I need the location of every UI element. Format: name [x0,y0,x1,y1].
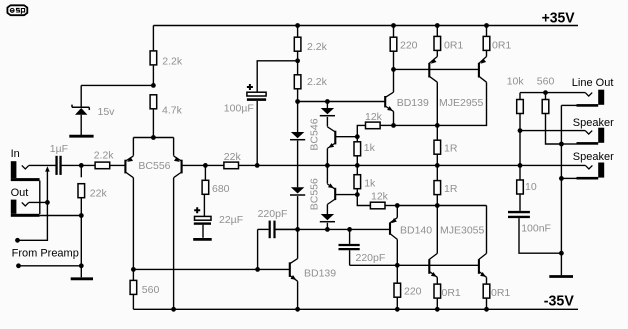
node rail tap 220 lower [395,307,400,312]
wire zener feed [81,85,153,107]
wire Q2 collector drop [173,178,175,310]
wire 2.2k to bias line [297,89,299,102]
resistor R 12k upper [357,111,393,137]
jack Out [11,200,40,217]
resistor R 10 zobel [517,165,537,211]
wire 2.2k/4.7k bias chain column [152,26,154,138]
svg-text:12k: 12k [371,191,389,203]
node comp line / D string [325,227,330,232]
wire D4 lower lead [326,223,328,230]
capacitor C 22uF [194,207,243,226]
node 10k bottom node [518,128,523,133]
zener D5 15v [69,105,115,137]
transistor Q5 BC546 [327,127,357,149]
node rail tap for VAS chain [295,23,300,28]
resistor R 220 lower [394,265,422,309]
node diode string tap [325,99,330,104]
svg-text:1R: 1R [444,183,458,195]
wire preamp ground lead [19,265,82,267]
resistor R 1k upper [354,137,376,166]
svg-text:15v: 15v [98,106,116,118]
wire Q2 base to feedback node [182,164,224,166]
wire VAS collector line [276,228,390,230]
node preamp ground terminal [16,263,21,268]
svg-text:220: 220 [404,286,422,298]
transistor Q4 BD139 VAS [290,229,298,309]
svg-text:1R: 1R [444,142,458,154]
svg-text:Speaker: Speaker [573,151,614,163]
node VAS emitter at rail [295,307,300,312]
resistor R 0R1 upper-right [483,26,511,57]
svg-text:0R1: 0R1 [492,40,511,52]
wire diode D1 leads [297,102,299,188]
wire 22k shunt bottom to ground [80,198,82,277]
wire Q5 emitter to output line [326,148,328,165]
resistor R 0R1 lower-left [434,284,461,309]
node Q2 collector at rail [171,307,176,312]
svg-text:0R1: 0R1 [444,40,463,52]
capacitor C 100nF zobel [508,212,561,253]
capacitor C 1uF input [50,143,68,175]
wire VAS chain top [297,26,299,38]
jack Line Out [561,90,604,107]
svg-text:Speaker: Speaker [573,117,614,129]
svg-text:0R1: 0R1 [491,287,510,299]
wire 680 to 22uF [203,195,205,217]
svg-text:BC546: BC546 [308,118,320,150]
node rail tap 0R1 a [435,23,440,28]
transistor Q11 MJE3055 [429,206,437,285]
node 560 top [543,90,548,95]
transistor Q8 BD140 driver [390,206,397,266]
wire 22k NFB to output riser [238,164,257,166]
svg-text:220pF: 220pF [356,252,386,264]
transistor Q6 BC556 [327,183,357,204]
wire -35V supply rail [133,308,578,310]
diode D1 [290,132,305,140]
svg-text:10: 10 [525,181,537,193]
wire output pair base line upper [394,68,479,70]
wire output pair base line lower [350,264,479,266]
label BD140 [400,225,432,237]
wire VAS input line [133,268,289,270]
svg-text:1µF: 1µF [50,143,68,155]
resistor R 1R upper [434,125,458,165]
node Q5 base node [355,134,360,139]
wire loop to preamp terminal [18,169,48,241]
node rail tap 0R1 d [484,307,489,312]
svg-text:4.7k: 4.7k [162,104,183,116]
ground 22uF [193,238,212,241]
resistor R 220 upper [390,26,417,70]
resistor R 2.2k VAS lower [294,75,327,89]
node input bias node [79,163,84,168]
svg-text:BC556: BC556 [308,178,320,210]
svg-text:Line Out: Line Out [572,77,614,89]
node LTP tail [151,135,156,140]
svg-text:220: 220 [400,40,418,52]
node feedback summing node [203,163,208,168]
svg-text:+35V: +35V [542,9,575,26]
resistor R 22k NFB [224,151,242,169]
svg-text:560: 560 [142,284,160,296]
svg-text:560: 560 [537,75,555,87]
wire output riser [519,131,521,166]
wire 22k shunt top [80,165,82,177]
wire diode D3 lower lead [297,196,299,229]
node rail tap 220 [391,23,396,28]
label +35V [542,9,575,26]
capacitor C 220pF upper [258,208,298,238]
label MJE2955 [439,97,484,109]
svg-text:MJE3055: MJE3055 [440,225,485,237]
resistor R 4.7k bias [150,95,182,117]
capacitor C 100uF [224,84,266,115]
node preamp ground junction [79,263,84,268]
wire +35V supply rail [153,25,578,27]
ground output section [549,275,573,278]
wire Q6 collector to D4 [326,204,328,214]
label BC546 [308,118,320,150]
transistor Q12 MJE3055 [479,206,487,285]
node preamp signal terminal [15,238,20,243]
label Speaker 1 [573,117,614,129]
label BD139 lower [304,267,336,279]
wire between 2.2k resistors [297,51,299,75]
label MJE3055 [440,225,485,237]
wire Q6 emitter from output line [326,165,328,183]
node BD140 collector node [395,263,400,268]
diode D4 [320,214,335,222]
transistor Q1 BC556 [125,156,133,178]
wire out jack loop [29,201,48,203]
node speaker1 ground [559,142,564,147]
label Line Out [572,77,614,89]
wire speaker1 feed [520,130,585,132]
wire 1uF to Q1 base [62,164,125,166]
resistor R 2.2k bias upper [150,51,183,67]
wire D2 upper lead [326,102,328,109]
resistor R 560 output [537,75,562,144]
transistor Q2 BC556 [174,156,182,178]
transistor Q7 BD139 driver [385,69,393,125]
svg-text:1k: 1k [364,177,376,189]
logo ESP [7,5,27,15]
wire jack sleeve ground link [40,181,82,216]
node output / zobel node [518,163,523,168]
svg-text:0R1: 0R1 [442,287,461,299]
node rail tap 0R1 b [484,23,489,28]
svg-text:12k: 12k [365,111,383,123]
svg-text:2.2k: 2.2k [307,41,328,53]
node rail tap 0R1 c [435,307,440,312]
resistor R 2.2k input [94,149,115,168]
node zobel ground [559,251,564,256]
resistor R 560 input [130,269,159,309]
diode D3 [290,187,305,195]
resistor R 10k [507,75,525,130]
node Q6 base node [355,192,360,197]
jack Speaker 1 [561,128,604,145]
node Q1 collector / 560 node [131,267,136,272]
resistor R 1k lower [354,165,376,194]
node NFB / 100uF node [255,163,260,168]
transistor Q9 MJE2955 [429,57,437,126]
resistor R 2.2k VAS upper [294,37,327,53]
node 220pF lower tap [347,227,352,232]
jack In [11,161,40,181]
label -35V [544,293,574,310]
svg-text:2.2k: 2.2k [162,55,183,67]
node BD140 emitter node [395,203,400,208]
svg-text:100nF: 100nF [521,222,551,234]
node jack ground junction [79,213,84,218]
svg-text:1k: 1k [364,142,376,154]
wire 100uF lower lead [256,101,258,165]
label From Preamp [12,248,79,260]
node output line / 1R junction [435,163,440,168]
node VAS collector node [295,227,300,232]
svg-text:680: 680 [212,183,230,195]
arrow signal entry [45,166,50,171]
svg-text:22µF: 22µF [219,214,243,226]
label BD139 upper [397,97,429,109]
resistor R 22k shunt [78,184,107,200]
label In [11,148,20,160]
node 1R lower node [435,203,440,208]
svg-text:220pF: 220pF [258,208,288,220]
svg-text:In: In [11,148,20,160]
wire 22uF to ground [202,225,204,238]
svg-text:From Preamp: From Preamp [12,248,79,260]
jack Speaker 2 [561,163,604,180]
node 2.2k-2.2k tap [295,58,300,63]
diode D2 [320,108,335,116]
wire input tip to 1uF [29,164,56,166]
svg-text:BD139: BD139 [304,267,336,279]
resistor R 0R1 upper-left [434,26,463,57]
transistor Q10 MJE2955 [394,57,487,126]
svg-text:BD140: BD140 [400,225,432,237]
svg-text:-35V: -35V [544,293,574,310]
svg-text:BD139: BD139 [397,97,429,109]
node driver collector / 220 node [391,67,396,72]
wire 680 top [204,165,206,180]
wire D2 to Q5 collector [326,117,328,127]
svg-text:22k: 22k [224,151,242,163]
wire Q1 collector drop [132,178,134,270]
node 12k/220/driver node [391,123,396,128]
svg-text:MJE2955: MJE2955 [439,97,484,109]
svg-text:Out: Out [11,187,29,199]
svg-text:BC556: BC556 [138,160,170,172]
svg-text:100µF: 100µF [224,103,254,115]
wire LTP emitter rail [133,138,173,156]
svg-text:10k: 10k [507,75,525,87]
node Q5 emitter node [325,163,330,168]
label BC556 vertical [308,178,320,210]
node collector/1R node [435,123,440,128]
resistor R 0R1 lower-right [483,284,510,309]
node bias line left [295,99,300,104]
wire line-out feed [520,92,585,94]
capacitor C 220pF lower [339,229,386,265]
resistor R 1R lower [434,165,458,205]
label Out [11,187,29,199]
wire lower drive line [397,205,486,207]
node bias chain / zener junction [151,83,156,88]
label BC556 pair [138,160,170,172]
node speaker2 ground [559,176,564,181]
wire upper driver bias line [298,101,386,103]
svg-text:2.2k: 2.2k [94,149,115,161]
wire 220pF to VAS base [257,229,259,269]
resistor R 12k lower [357,191,397,209]
resistor R 680 [202,180,230,195]
wire mid output line [257,164,585,166]
node 220pF tap [255,267,260,272]
wire 100uF upper lead [257,61,297,92]
wire output ground bus [560,105,562,275]
ground input section [71,277,93,280]
node output line / 1k junction [355,163,360,168]
svg-text:22k: 22k [90,188,108,200]
label Speaker 2 [573,151,614,163]
svg-text:2.2k: 2.2k [307,76,328,88]
node out jack tee [45,200,50,205]
